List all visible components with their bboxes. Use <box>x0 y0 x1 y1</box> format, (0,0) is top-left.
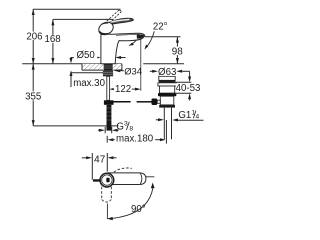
svg-text:168: 168 <box>45 34 61 45</box>
svg-text:G1: G1 <box>178 110 191 121</box>
svg-text:206: 206 <box>26 31 42 42</box>
svg-text:90°: 90° <box>131 204 146 215</box>
svg-text:max.180: max.180 <box>116 133 154 144</box>
svg-text:22°: 22° <box>153 22 168 33</box>
svg-text:122: 122 <box>115 84 131 95</box>
svg-text:max.30: max.30 <box>73 78 105 89</box>
svg-text:4: 4 <box>196 114 200 121</box>
svg-text:47: 47 <box>94 154 106 165</box>
svg-text:98: 98 <box>172 47 183 58</box>
svg-text:Ø63: Ø63 <box>158 67 176 78</box>
svg-text:Ø34: Ø34 <box>124 65 142 76</box>
svg-text:G: G <box>116 121 124 132</box>
svg-text:8: 8 <box>129 126 133 133</box>
svg-text:40-53: 40-53 <box>176 83 201 94</box>
svg-text:Ø50: Ø50 <box>76 50 95 61</box>
svg-text:355: 355 <box>25 92 41 103</box>
